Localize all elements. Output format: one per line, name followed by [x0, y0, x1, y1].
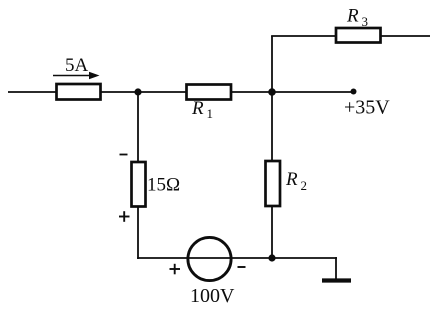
wire: R3 right lead — [381, 35, 430, 37]
svg-text:2: 2 — [301, 178, 308, 193]
voltage source 100V — [188, 237, 231, 280]
svg-text:+35V: +35V — [344, 97, 390, 119]
svg-text:5A: 5A — [65, 55, 89, 76]
resistor 15Ω — [132, 162, 146, 207]
wire: R2 down to node C — [271, 206, 273, 258]
wire: left input lead — [8, 91, 56, 93]
resistor R2 — [266, 161, 281, 206]
resistor R1 — [187, 85, 232, 100]
label R3 — [346, 6, 368, 30]
svg-text:1: 1 — [207, 106, 214, 121]
wire: vertical R2 branch (node B to R2) — [271, 92, 273, 161]
wire: 15Ω down to bottom rail corner — [137, 206, 139, 259]
svg-text:3: 3 — [362, 14, 369, 29]
svg-text:R: R — [285, 169, 298, 190]
wire: node B to +35V terminal — [272, 91, 353, 93]
wire: R1 to node B — [231, 91, 272, 93]
wire: bottom rail (corner to node C) — [137, 257, 272, 259]
resistor (unnamed, 5A branch) — [57, 84, 101, 100]
node A (junction input / R1 / 15Ω) — [134, 88, 141, 95]
wire: corner to R3 left — [271, 35, 336, 37]
node B (junction R1 / R2 / R3 / +35V) — [268, 88, 276, 96]
wire: node A down to 15Ω — [137, 92, 139, 162]
svg-text:15Ω: 15Ω — [147, 175, 180, 196]
wire: resistor to node A — [101, 91, 138, 93]
current arrow (5A direction) — [53, 72, 100, 79]
polarity + (source left) — [170, 264, 181, 275]
ground — [322, 278, 351, 282]
wire: node C to ground drop — [272, 257, 337, 259]
svg-text:R: R — [191, 98, 204, 119]
svg-text:100V: 100V — [190, 285, 235, 307]
resistor R3 — [336, 28, 381, 43]
wire: node A to R1 — [138, 91, 186, 93]
label R1 — [191, 98, 213, 121]
node C (junction source / R2 / ground) — [268, 254, 275, 261]
wire: ground vertical drop — [335, 257, 337, 279]
svg-text:R: R — [346, 6, 359, 27]
polarity − (source right) — [238, 266, 246, 268]
polarity − (15Ω top) — [120, 154, 128, 156]
polarity + (15Ω bottom) — [119, 211, 130, 222]
wire: node B up to R3 branch — [271, 36, 273, 92]
node: +35V terminal — [351, 89, 357, 95]
label R2 — [285, 169, 307, 193]
